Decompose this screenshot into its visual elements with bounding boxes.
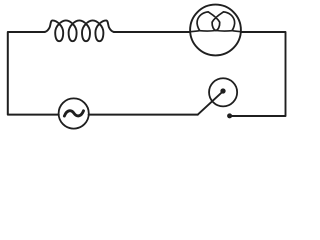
lamp B1 filament (double-loop squiggle) bbox=[190, 12, 241, 32]
lamp B1 (bulb outline) bbox=[190, 5, 241, 56]
AC source G1 sine symbol bbox=[64, 111, 83, 116]
wire: top-left run, left side, bottom-left run bbox=[8, 32, 59, 115]
inductor L1 (coil, 4 loops) bbox=[44, 20, 114, 41]
wire: bottom between AC source and switch lever bbox=[89, 114, 198, 116]
AC source G1 (circle) bbox=[59, 98, 89, 128]
switch S1 lever (diagonal) bbox=[198, 92, 223, 115]
lamp B1 filament bottom arcs bbox=[200, 30, 232, 33]
switch S1 knob circle bbox=[209, 78, 237, 106]
switch S1 pivot dot bbox=[220, 88, 225, 93]
switch S1 right terminal dot bbox=[227, 113, 232, 118]
wire: top-right run, right side, bottom-right run bbox=[230, 32, 286, 116]
wire: top between coil and lamp bbox=[114, 31, 191, 33]
